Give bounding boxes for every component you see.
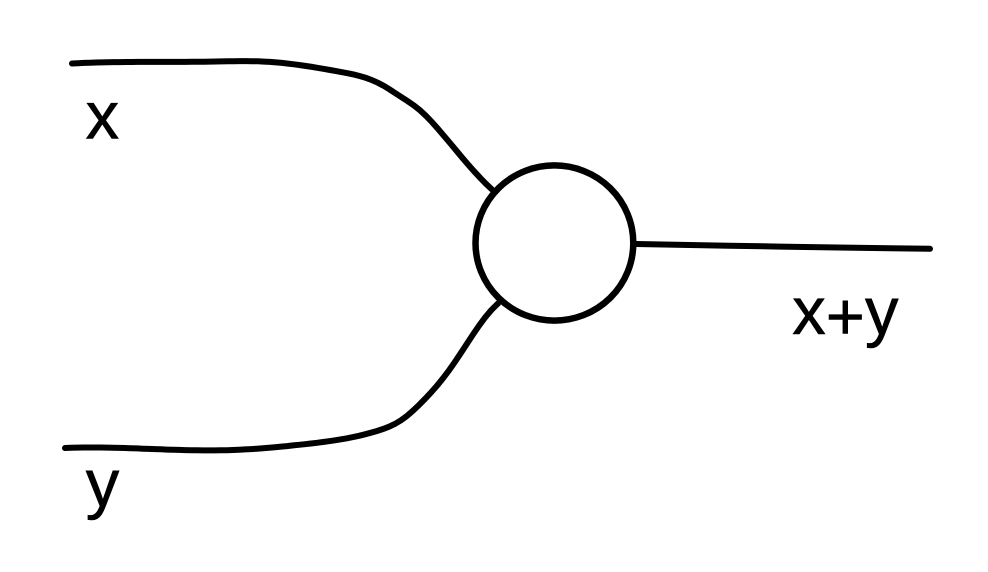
svg-text:y: y [86,446,120,521]
node sum circle [476,165,634,320]
svg-text:x: x [86,79,120,154]
wire y input [65,304,498,451]
svg-text:x+y: x+y [792,274,899,355]
wire x input [72,61,492,189]
wire output [637,244,931,249]
